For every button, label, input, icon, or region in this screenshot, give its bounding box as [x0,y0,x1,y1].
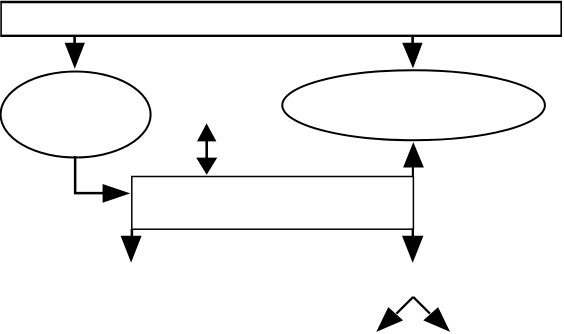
wire: arrow from top bar to right ellipse [402,35,422,68]
wire: up arrow from middle rectangle top into right ellipse [403,142,424,177]
right ellipse [282,70,545,140]
double-headed vertical arrow above middle rectangle [196,123,217,174]
left ellipse [1,72,151,158]
wire: elbow connector from left ellipse into middle rectangle [75,156,130,203]
wire: down arrow below middle rectangle left side [121,229,142,263]
wire: arrow from top bar to left ellipse [65,35,85,69]
middle rectangle [132,177,414,230]
wire: forked split arrow, left branch [376,297,413,332]
wire: down arrow below middle rectangle right side [402,228,423,263]
wire: forked split arrow, right branch [413,297,450,332]
top bar rectangle [0,2,562,36]
